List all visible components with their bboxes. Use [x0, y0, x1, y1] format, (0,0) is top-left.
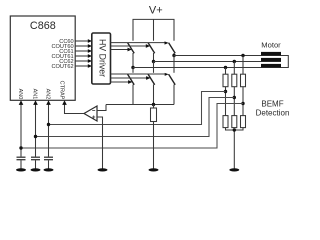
wire tap3 feedback to AN0	[21, 104, 243, 149]
node BEMF tap col1 on phase W	[224, 66, 227, 69]
op-amp U3 comparator	[84, 106, 97, 121]
node BEMF tap col3 on phase U	[241, 54, 244, 57]
wire V+ rail	[133, 19, 174, 40]
wire comparator output to CTRAP	[65, 104, 85, 114]
transistor Q3 top switch phase U	[111, 41, 176, 55]
svg-text:BEMF: BEMF	[261, 100, 283, 109]
wire CC62 to driver	[75, 59, 92, 63]
capacitor C1 on AN0	[17, 157, 26, 168]
motor M1 winding V	[261, 58, 281, 62]
node shunt top	[152, 103, 155, 106]
svg-text:C868: C868	[30, 20, 56, 32]
resistor R7 shunt	[151, 105, 157, 169]
wire low side source rail	[106, 104, 174, 106]
svg-text:AN2: AN2	[45, 89, 51, 100]
node phase V junction	[152, 60, 155, 63]
node phase U junction	[172, 54, 175, 57]
wire tap1 feedback to AN2	[49, 92, 226, 125]
ground C2	[31, 168, 41, 171]
svg-text:V+: V+	[149, 5, 163, 17]
svg-text:Detection: Detection	[256, 108, 290, 117]
wire phase V line to motor	[154, 61, 262, 63]
wire COUT61 to driver	[75, 54, 92, 58]
ground C1	[16, 168, 26, 171]
node lower divider join	[233, 128, 236, 131]
motor M1 winding W	[261, 64, 281, 68]
node AN2 junction	[47, 123, 50, 126]
node phase W junction	[131, 66, 134, 69]
wire COUT62 to driver	[75, 64, 92, 68]
svg-text:CTRAP: CTRAP	[59, 81, 65, 100]
transistor Q6 bottom switch phase U	[111, 56, 176, 105]
node AN1 junction	[34, 135, 37, 138]
svg-text:AN0: AN0	[17, 89, 23, 100]
svg-text:COUT62: COUT62	[52, 64, 74, 70]
resistor R1 upper divider col1	[223, 68, 228, 116]
wire motor star point	[281, 56, 288, 68]
wire AN0 column	[20, 104, 22, 157]
wire COUT60 to driver	[75, 44, 92, 48]
wire phase U line to motor	[174, 55, 261, 57]
resistor R2 upper divider col2	[232, 62, 237, 116]
node tap2	[233, 96, 236, 99]
transistor Q2 top switch phase V	[111, 43, 155, 62]
capacitor C3 on AN2	[44, 157, 53, 168]
ground BEMF divider	[229, 168, 239, 171]
wire comparator minus input to shunt rail	[97, 105, 106, 111]
wire lower divider join	[226, 128, 244, 169]
resistor R3 upper divider col3	[241, 56, 246, 116]
wire AN1 column	[35, 104, 37, 157]
transistor Q4 bottom switch phase W	[111, 68, 135, 105]
resistor R5 lower divider col2	[232, 116, 237, 128]
node tap3	[241, 102, 244, 105]
ground comparator reference	[98, 168, 108, 171]
capacitor C2 on AN1	[31, 157, 40, 168]
ground C3	[44, 168, 54, 171]
HV driver box U2	[92, 33, 111, 84]
svg-text:Motor: Motor	[261, 40, 281, 49]
wire comparator plus input to ground	[97, 117, 103, 169]
node AN0 junction	[19, 146, 22, 149]
node BEMF tap col2 on phase V	[233, 60, 236, 63]
transistor Q1 top switch phase W	[111, 43, 135, 68]
wire tap2 feedback to AN1	[36, 98, 235, 137]
wire AN2 column	[48, 104, 50, 157]
resistor R4 lower divider col1	[223, 116, 228, 128]
wire CC61 to driver	[75, 49, 92, 53]
svg-text:AN1: AN1	[32, 89, 38, 100]
motor M1 winding U	[261, 52, 281, 56]
transistor Q5 bottom switch phase V	[111, 62, 155, 105]
op-amp U1 microcontroller box C868	[10, 16, 75, 100]
wire CC60 to driver	[75, 39, 92, 43]
node tap1	[224, 90, 227, 93]
wire phase W line to motor	[133, 67, 261, 69]
svg-text:HV Driver: HV Driver	[98, 39, 108, 77]
ground shunt	[149, 168, 159, 171]
resistor R6 lower divider col3	[241, 116, 246, 128]
